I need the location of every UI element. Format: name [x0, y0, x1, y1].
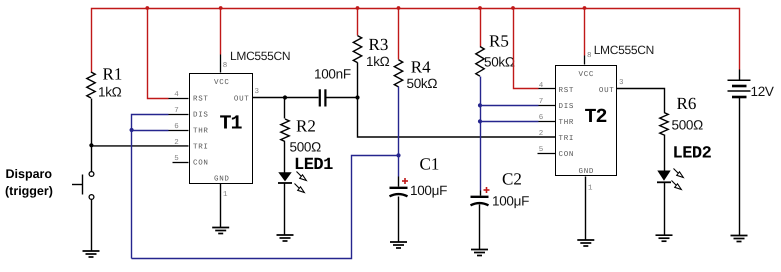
node DIS2 junction	[478, 103, 482, 107]
svg-text:R6: R6	[677, 94, 697, 113]
svg-text:100nF: 100nF	[314, 67, 351, 82]
capacitor 100nF	[320, 89, 326, 106]
node rail junction x584	[583, 6, 587, 10]
svg-text:12V: 12V	[751, 84, 774, 99]
node C1 junction	[396, 153, 400, 157]
switch S1 pushbutton	[72, 146, 94, 251]
svg-text:8: 8	[587, 51, 592, 60]
wire C1 node down	[398, 156, 400, 177]
wire C2 lead	[480, 191, 482, 196]
wire OUT1	[253, 97, 319, 99]
svg-text:RST: RST	[559, 86, 575, 95]
svg-text:LED1: LED1	[294, 156, 333, 175]
node THR2 junction	[478, 119, 482, 123]
svg-text:2: 2	[539, 129, 544, 138]
node rail junction x398	[397, 6, 401, 10]
svg-text:DIS: DIS	[559, 102, 575, 111]
svg-text:R2: R2	[296, 117, 316, 136]
wire RST1 pin stub	[169, 98, 189, 100]
wire R1 bottom to trigger node	[91, 99, 93, 146]
svg-text:OUT: OUT	[234, 95, 250, 104]
svg-text:1kΩ: 1kΩ	[366, 54, 390, 69]
svg-text:500Ω: 500Ω	[290, 140, 322, 155]
svg-text:T2: T2	[584, 106, 606, 129]
svg-text:1kΩ: 1kΩ	[98, 85, 122, 100]
battery V1	[728, 70, 751, 236]
ground T1	[212, 228, 229, 234]
svg-text:TRI: TRI	[559, 135, 575, 143]
ground LED1	[277, 235, 294, 241]
ground T2	[577, 240, 594, 246]
node rail junction x480	[478, 6, 482, 10]
svg-text:THR: THR	[559, 119, 575, 127]
ground C2	[471, 250, 488, 256]
svg-text:R5: R5	[489, 32, 509, 51]
svg-text:3: 3	[255, 87, 260, 96]
svg-text:R4: R4	[411, 58, 431, 77]
node trigger junction	[89, 143, 93, 147]
svg-text:100μF: 100μF	[410, 183, 447, 198]
ground battery	[731, 236, 748, 242]
svg-text:100μF: 100μF	[492, 194, 529, 209]
svg-text:TRI: TRI	[193, 144, 209, 152]
ground C1	[390, 242, 407, 248]
wire CON2 stub	[538, 153, 556, 155]
wire CON1 stub	[173, 162, 189, 164]
resistor R3	[353, 9, 361, 98]
svg-text:5: 5	[174, 155, 179, 163]
wire VCC2 pin from rail	[584, 9, 586, 56]
op-amp U1 LMC555CN timer T1	[190, 74, 253, 184]
resistor R2	[281, 98, 289, 173]
LED2 arrow 1	[674, 169, 684, 178]
svg-text:GND: GND	[579, 167, 595, 176]
svg-text:C2: C2	[502, 170, 522, 189]
svg-text:1: 1	[223, 191, 228, 199]
LED1 arrow 1	[297, 172, 307, 181]
node rail junction x513	[511, 6, 515, 10]
resistor R4	[394, 9, 402, 156]
resistor R6	[660, 113, 668, 171]
wire RST1 from rail	[148, 9, 169, 99]
LED1 arrow 2	[295, 184, 305, 193]
svg-text:50kΩ: 50kΩ	[407, 76, 438, 91]
svg-text:LMC555CN: LMC555CN	[594, 43, 654, 57]
node OUT1 R2 junction	[283, 95, 287, 99]
wire blue bottom loop to C1 node	[132, 156, 399, 259]
wire 100nF to R3 node	[327, 97, 358, 99]
polarity + C2	[484, 187, 490, 193]
wire DIS1 blue	[132, 115, 169, 259]
svg-text:T1: T1	[219, 113, 242, 136]
node coupling junction	[355, 95, 359, 99]
svg-text:DIS: DIS	[193, 111, 209, 120]
resistor R5	[476, 9, 484, 191]
svg-text:1: 1	[588, 185, 593, 193]
svg-text:2: 2	[174, 138, 179, 147]
LED LED1	[278, 172, 292, 234]
wire VCC top rail	[92, 9, 740, 73]
wire THR1 pin stub	[169, 130, 189, 132]
capacitor C1	[390, 188, 408, 243]
svg-text:4: 4	[539, 82, 544, 90]
svg-text:4: 4	[174, 91, 179, 99]
capacitor C2	[471, 197, 489, 250]
wire RST2 from rail	[514, 9, 539, 89]
polarity + C1	[402, 178, 408, 184]
svg-text:3: 3	[619, 78, 624, 87]
svg-text:CON: CON	[559, 150, 575, 159]
wire TRI1 to pin 2	[92, 145, 189, 147]
wire VCC1 pin from rail	[220, 9, 222, 55]
svg-text:50kΩ: 50kΩ	[484, 55, 515, 70]
svg-text:VCC: VCC	[214, 78, 230, 87]
wire OUT2	[617, 89, 665, 113]
ground trigger	[83, 251, 100, 257]
svg-text:5: 5	[539, 146, 544, 154]
svg-text:6: 6	[174, 122, 179, 131]
wire DIS1 pin stub	[169, 114, 189, 116]
svg-text:8: 8	[223, 61, 228, 70]
ground LED2	[656, 235, 673, 241]
svg-text:R3: R3	[369, 35, 389, 54]
LED2 arrow 2	[672, 181, 682, 190]
node rail junction x221	[219, 6, 223, 10]
op-amp U2 LMC555CN timer T2	[556, 66, 617, 177]
wire coupling node to TRI2	[358, 98, 556, 138]
LED LED2	[657, 171, 671, 236]
node rail junction x147	[145, 6, 149, 10]
svg-text:C1: C1	[420, 155, 440, 174]
wire THR2 blue	[481, 121, 539, 123]
wire GND2 pin to ground	[585, 177, 587, 241]
svg-text:RST: RST	[193, 95, 209, 104]
svg-text:7: 7	[539, 98, 544, 106]
svg-text:CON: CON	[193, 159, 209, 168]
svg-text:6: 6	[539, 113, 544, 122]
svg-text:OUT: OUT	[599, 86, 615, 95]
wire GND1 pin to ground	[220, 184, 222, 228]
resistor R1	[87, 72, 95, 98]
svg-text:500Ω: 500Ω	[672, 118, 704, 133]
svg-text:GND: GND	[214, 175, 230, 184]
svg-text:7: 7	[174, 107, 179, 115]
svg-text:Disparo: Disparo	[6, 167, 53, 181]
node THR1 tee	[130, 128, 134, 132]
svg-text:VCC: VCC	[579, 70, 595, 79]
svg-text:(trigger): (trigger)	[5, 184, 53, 198]
svg-text:LED2: LED2	[673, 145, 712, 164]
svg-text:THR: THR	[193, 128, 209, 136]
svg-text:LMC555CN: LMC555CN	[230, 49, 290, 63]
wire DIS2 blue	[481, 105, 539, 107]
node rail junction x357	[356, 6, 360, 10]
svg-text:R1: R1	[103, 65, 123, 84]
wire THR1 blue	[132, 130, 169, 132]
